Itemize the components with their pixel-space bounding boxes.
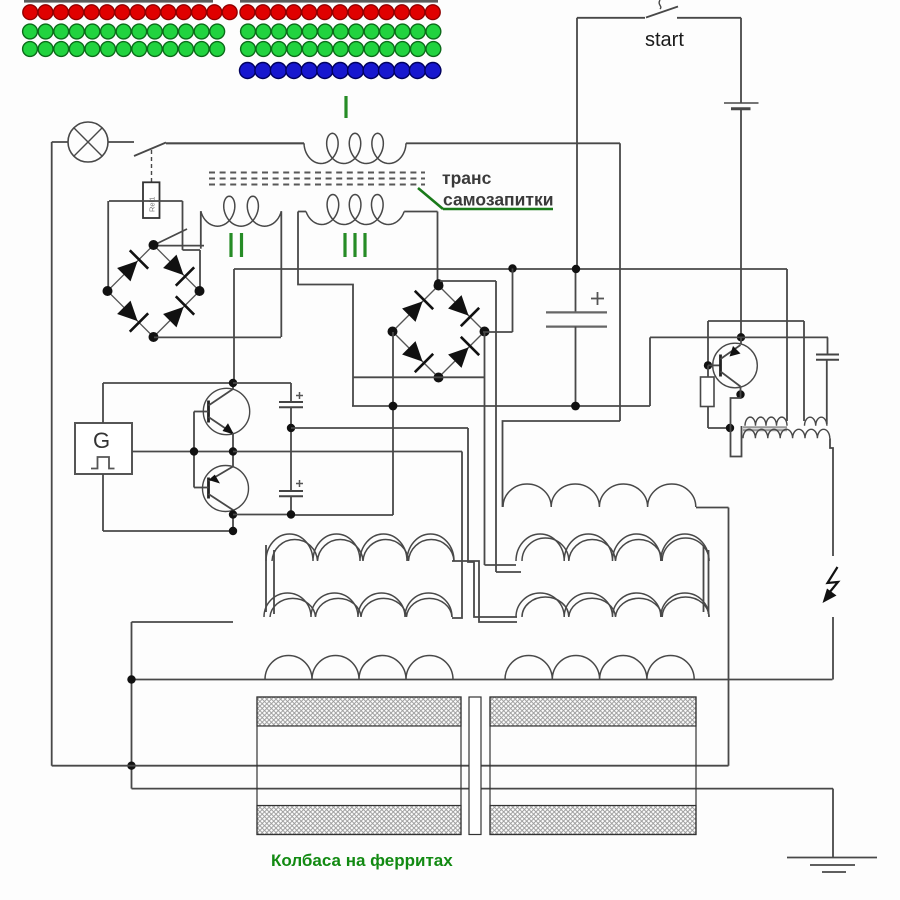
svg-text:самозапитки: самозапитки xyxy=(443,190,553,210)
svg-text:start: start xyxy=(645,29,684,51)
svg-text:Колбаса на ферритах: Колбаса на ферритах xyxy=(271,851,453,870)
svg-text:G: G xyxy=(93,428,110,453)
svg-text:Rel1: Rel1 xyxy=(148,197,157,212)
svg-text:транс: транс xyxy=(442,168,492,188)
